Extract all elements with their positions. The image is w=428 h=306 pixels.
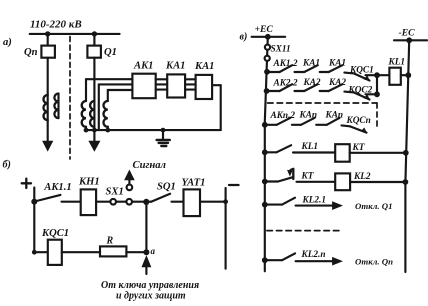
svg-text:в): в)	[240, 31, 248, 42]
svg-text:KL2.1: KL2.1	[302, 196, 327, 206]
svg-text:KL2.n: KL2.n	[301, 250, 326, 260]
svg-text:б): б)	[3, 160, 11, 171]
svg-text:AK2.2: AK2.2	[273, 79, 298, 89]
svg-text:KQCn: KQCn	[346, 116, 371, 126]
svg-text:KA1: KA1	[194, 61, 214, 72]
svg-text:KT: KT	[301, 172, 314, 182]
svg-text:KT: KT	[352, 143, 365, 153]
svg-text:AK1: AK1	[133, 61, 153, 72]
svg-text:AK1.2: AK1.2	[273, 59, 298, 69]
svg-text:SX11: SX11	[271, 45, 291, 55]
svg-text:R: R	[106, 236, 114, 247]
svg-text:KAn: KAn	[299, 111, 318, 121]
svg-text:SQ1: SQ1	[157, 181, 176, 192]
svg-text:SX1: SX1	[106, 186, 124, 197]
svg-text:а): а)	[3, 37, 12, 48]
svg-text:KA1: KA1	[302, 59, 320, 69]
svg-text:КН1: КН1	[78, 177, 100, 188]
svg-text:и других защит: и других защит	[116, 291, 186, 302]
svg-text:KA2: KA2	[303, 78, 321, 88]
svg-text:110-220 кВ: 110-220 кВ	[30, 19, 82, 31]
svg-text:+EC: +EC	[255, 24, 274, 35]
svg-text:AKn.2: AKn.2	[270, 111, 296, 121]
svg-text:AK1.1: AK1.1	[43, 182, 71, 193]
svg-text:KL1: KL1	[388, 58, 406, 68]
svg-text:-EC: -EC	[399, 28, 416, 39]
svg-text:Q1: Q1	[104, 47, 117, 58]
svg-text:KA2: KA2	[328, 78, 346, 88]
svg-text:KL2: KL2	[353, 172, 371, 182]
svg-text:KA1: KA1	[328, 59, 346, 69]
svg-text:KQC1: KQC1	[349, 66, 374, 76]
svg-text:Откл. Qn: Откл. Qn	[355, 257, 393, 267]
svg-text:a: a	[151, 246, 156, 256]
svg-text:KQC2: KQC2	[348, 86, 373, 96]
svg-text:KQC1: KQC1	[41, 228, 69, 239]
svg-text:KA1: KA1	[165, 61, 185, 72]
svg-text:KAn: KAn	[325, 111, 344, 121]
svg-text:Откл. Q1: Откл. Q1	[355, 201, 393, 211]
svg-text:KL1: KL1	[301, 142, 319, 152]
svg-text:YAT1: YAT1	[182, 177, 206, 188]
svg-text:Сигнал: Сигнал	[133, 160, 167, 171]
svg-text:От ключа управления: От ключа управления	[101, 280, 199, 291]
svg-text:Qn: Qn	[24, 47, 38, 58]
